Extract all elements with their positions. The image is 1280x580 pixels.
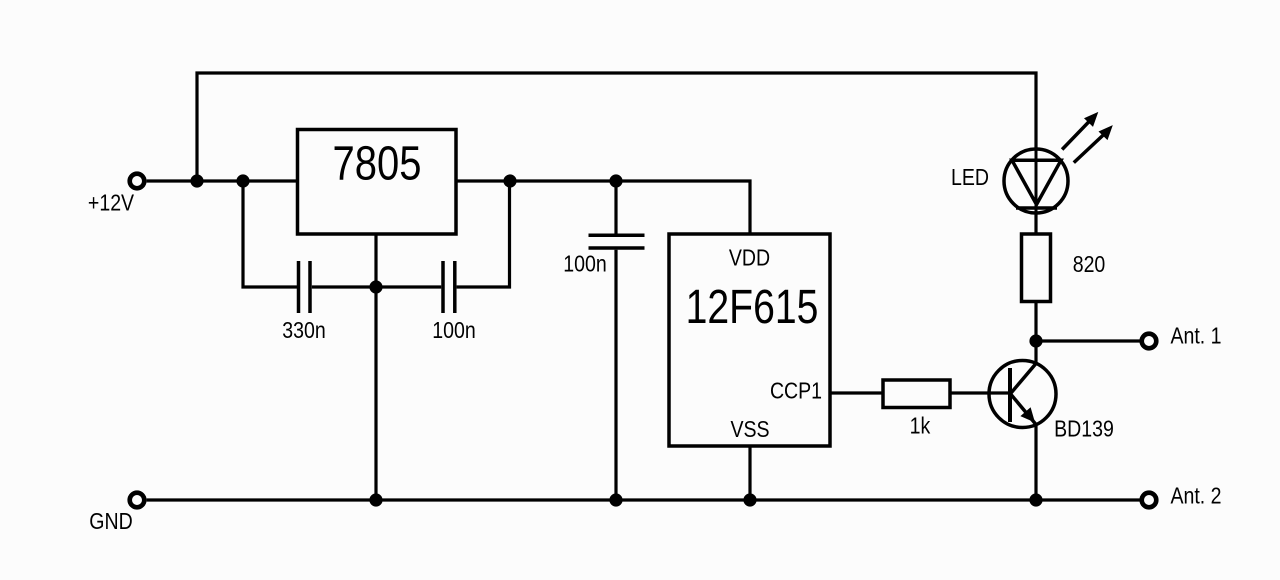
- wire: [1036, 339, 1140, 342]
- resistor R1 820: [1022, 234, 1106, 302]
- svg-text:VSS: VSS: [730, 416, 769, 442]
- junction: [1029, 493, 1042, 506]
- wire: [950, 391, 1008, 394]
- wire: [614, 250, 617, 500]
- wire: [147, 498, 1140, 501]
- wire: [243, 181, 297, 287]
- terminal +12V: [130, 174, 145, 189]
- terminal Ant.2: [1142, 493, 1157, 508]
- junction: [609, 493, 622, 506]
- junction: [609, 174, 622, 187]
- wire: [831, 391, 883, 394]
- led arrows: [1062, 112, 1113, 163]
- regulator U2 7805: [298, 130, 457, 235]
- wire: [312, 285, 442, 288]
- wire: [748, 446, 751, 500]
- junction: [743, 493, 756, 506]
- svg-text:VDD: VDD: [729, 245, 770, 271]
- capacitor C1 330n: [282, 261, 325, 343]
- svg-text:LED: LED: [951, 165, 989, 191]
- wire: [1034, 301, 1037, 364]
- svg-text:BD139: BD139: [1054, 416, 1114, 442]
- svg-text:+12V: +12V: [88, 190, 135, 216]
- wire: [614, 181, 617, 234]
- svg-text:12F615: 12F615: [686, 280, 819, 334]
- svg-text:330n: 330n: [282, 317, 325, 343]
- led D1: [1004, 148, 1068, 214]
- transistor Q1 BD139: [989, 361, 1114, 442]
- junction: [1029, 334, 1042, 347]
- wire: [374, 235, 377, 501]
- junction: [236, 174, 249, 187]
- svg-text:820: 820: [1073, 252, 1106, 278]
- junction: [190, 174, 203, 187]
- svg-text:7805: 7805: [333, 137, 422, 190]
- svg-text:Ant. 2: Ant. 2: [1170, 483, 1221, 509]
- capacitor C3 100n: [563, 235, 644, 277]
- wire: [1034, 213, 1037, 235]
- svg-text:GND: GND: [89, 508, 132, 534]
- svg-text:100n: 100n: [432, 317, 475, 343]
- ic U1 12F615: [669, 234, 830, 446]
- wire: [197, 73, 1036, 181]
- wire: [147, 179, 298, 182]
- svg-text:1k: 1k: [910, 413, 931, 439]
- svg-text:CCP1: CCP1: [770, 378, 822, 404]
- terminal Ant.1: [1142, 334, 1157, 349]
- svg-text:Ant. 1: Ant. 1: [1170, 323, 1221, 349]
- capacitor C2 100n: [432, 261, 475, 343]
- resistor R2 1k: [883, 380, 950, 439]
- wire: [1034, 425, 1037, 501]
- terminal GND: [130, 493, 145, 508]
- svg-text:100n: 100n: [563, 251, 606, 277]
- wire: [457, 181, 510, 287]
- junction: [369, 280, 382, 293]
- junction: [503, 174, 516, 187]
- junction: [369, 493, 382, 506]
- wire: [456, 181, 750, 235]
